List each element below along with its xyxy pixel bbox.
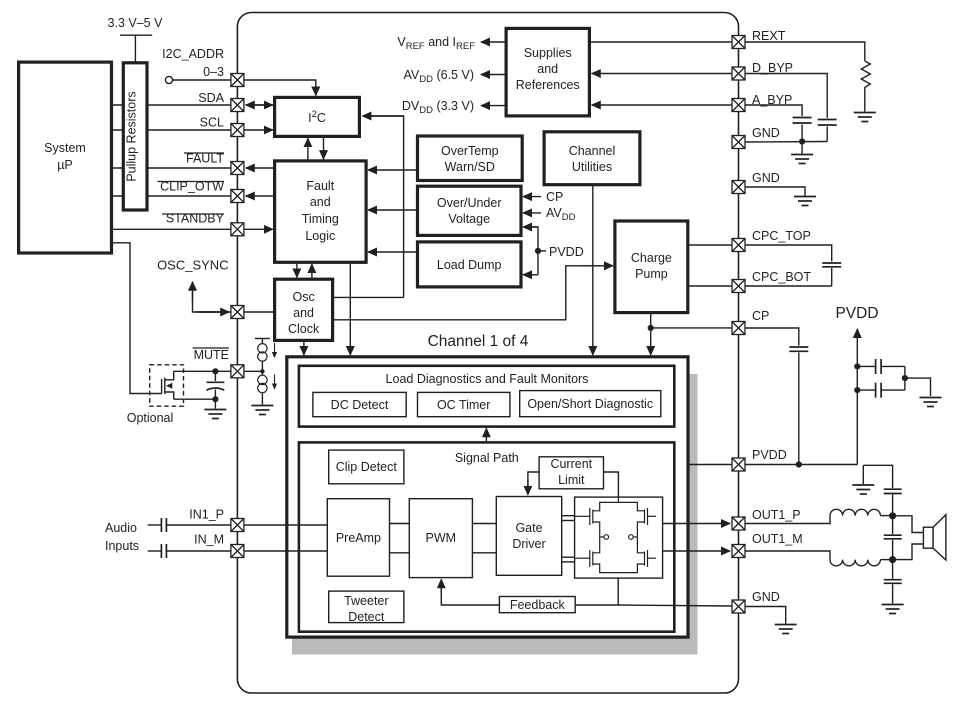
svg-text:OUT1_M: OUT1_M — [752, 532, 803, 546]
svg-text:Signal Path: Signal Path — [455, 451, 519, 465]
svg-text:GND: GND — [752, 590, 780, 604]
svg-text:Open/Short Diagnostic: Open/Short Diagnostic — [527, 397, 653, 411]
svg-text:I2C_ADDR: I2C_ADDR — [162, 47, 224, 61]
svg-text:CP: CP — [752, 309, 769, 323]
svg-text:OSC_SYNC: OSC_SYNC — [157, 258, 229, 273]
svg-text:PVDD: PVDD — [752, 448, 787, 462]
svg-text:PVDD: PVDD — [549, 245, 584, 259]
svg-text:Fault: Fault — [306, 179, 334, 193]
svg-text:Osc: Osc — [292, 290, 314, 304]
svg-text:and: and — [310, 195, 331, 209]
svg-text:REXT: REXT — [752, 29, 786, 43]
svg-text:CPC_TOP: CPC_TOP — [752, 229, 811, 243]
svg-text:3.3 V–5 V: 3.3 V–5 V — [108, 16, 164, 30]
svg-text:IN_M: IN_M — [194, 533, 224, 547]
svg-text:SCL: SCL — [200, 116, 224, 130]
svg-text:CPC_BOT: CPC_BOT — [752, 270, 811, 284]
svg-text:Detect: Detect — [348, 610, 385, 624]
svg-text:CP: CP — [546, 190, 563, 204]
svg-text:OverTemp: OverTemp — [441, 144, 499, 158]
svg-text:GND: GND — [752, 126, 780, 140]
svg-text:DC Detect: DC Detect — [331, 398, 389, 412]
svg-text:Pullup Resistors: Pullup Resistors — [125, 91, 139, 181]
svg-text:System: System — [44, 141, 86, 155]
svg-text:Load Dump: Load Dump — [437, 258, 502, 272]
svg-text:Optional: Optional — [127, 411, 174, 425]
svg-text:Voltage: Voltage — [448, 212, 490, 226]
svg-text:Limit: Limit — [558, 473, 585, 487]
svg-text:0–3: 0–3 — [203, 65, 224, 79]
svg-text:Driver: Driver — [512, 537, 545, 551]
svg-text:Over/Under: Over/Under — [437, 196, 502, 210]
svg-text:Pump: Pump — [635, 267, 668, 281]
svg-text:MUTE: MUTE — [194, 348, 229, 362]
svg-text:I2C: I2C — [308, 109, 326, 125]
svg-text:Audio: Audio — [105, 521, 137, 535]
svg-text:SDA: SDA — [198, 91, 224, 105]
svg-text:Timing: Timing — [302, 212, 339, 226]
svg-text:Clip Detect: Clip Detect — [336, 460, 398, 474]
svg-text:GND: GND — [752, 171, 780, 185]
svg-text:Inputs: Inputs — [105, 539, 139, 553]
svg-text:Gate: Gate — [515, 521, 542, 535]
svg-text:µP: µP — [57, 158, 73, 172]
svg-text:Clock: Clock — [288, 322, 320, 336]
svg-text:Logic: Logic — [305, 229, 335, 243]
svg-text:OC Timer: OC Timer — [437, 398, 490, 412]
svg-text:PWM: PWM — [426, 531, 457, 545]
svg-text:OUT1_P: OUT1_P — [752, 508, 801, 522]
svg-text:Tweeter: Tweeter — [344, 594, 388, 608]
svg-text:Current: Current — [550, 457, 592, 471]
svg-text:Channel 1 of 4: Channel 1 of 4 — [428, 333, 529, 350]
svg-text:Charge: Charge — [631, 251, 672, 265]
svg-text:PVDD: PVDD — [835, 305, 878, 322]
svg-text:and: and — [293, 306, 314, 320]
svg-text:Channel: Channel — [569, 144, 616, 158]
svg-text:and: and — [537, 62, 558, 76]
svg-text:Feedback: Feedback — [510, 598, 566, 612]
svg-text:IN1_P: IN1_P — [189, 508, 224, 522]
svg-text:Utilities: Utilities — [572, 160, 612, 174]
svg-text:Supplies: Supplies — [524, 46, 572, 60]
svg-text:FAULT: FAULT — [186, 152, 224, 166]
svg-text:Load Diagnostics and Fault Mon: Load Diagnostics and Fault Monitors — [386, 372, 589, 386]
svg-text:Warn/SD: Warn/SD — [445, 160, 495, 174]
svg-text:PreAmp: PreAmp — [336, 531, 381, 545]
svg-text:References: References — [516, 78, 580, 92]
